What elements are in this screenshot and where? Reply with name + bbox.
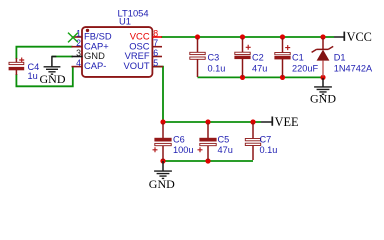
svg-text:4: 4 [76,58,81,68]
ground GND1 (near U1 pin3) [40,57,66,86]
capacitor C5 (47u polarized) [198,123,233,160]
capacitor C6 (100u polarized) [153,123,194,160]
capacitor C7 (0.1u) [245,123,277,160]
pin 2 number [76,38,81,48]
svg-text:VCC: VCC [347,30,372,44]
capacitor C3 (0.1u) [190,38,226,77]
U1 pin 2 CAP+ stub [72,46,83,48]
pin 6 name VREF [125,50,150,61]
pin 8 name VCC [130,31,150,42]
U1 pin 4 CAP- stub [72,66,83,68]
svg-text:C7: C7 [260,135,272,145]
svg-text:C5: C5 [218,135,230,145]
svg-text:7: 7 [153,38,158,48]
U1 pin 7 OSC stub [152,46,162,48]
diode D1 zener 1N4742A [312,38,373,76]
IC U1 LT1054 body [82,27,152,77]
svg-text:1u: 1u [28,71,38,81]
wire VCC rail (pin8 to VCC port) [161,36,334,38]
U1 pin 8 VCC stub (red) [152,36,162,38]
svg-text:8: 8 [153,28,158,38]
node: C2 bottom junction [240,75,245,80]
U1 designator [119,15,131,26]
node: C1 top junction [280,34,285,39]
power port VEE [261,115,299,129]
pin 6 number [153,48,158,58]
pin 8 number [153,28,158,38]
node: C5 bottom junction [205,158,210,163]
svg-text:47u: 47u [218,145,233,155]
svg-text:GND: GND [310,91,336,105]
svg-text:0.1u: 0.1u [208,63,226,73]
capacitor C4 (1u polarized) [9,58,39,81]
no-connect X on pin 1 [68,33,78,43]
svg-text:1: 1 [76,28,81,38]
svg-text:0.1u: 0.1u [260,145,278,155]
wire VEE rail [163,121,261,123]
svg-text:D1: D1 [334,53,346,63]
node: C6 bottom junction [160,158,165,163]
node: C1 bottom junction [280,75,285,80]
pin 5 number [153,58,158,68]
node: C2 top junction [240,34,245,39]
svg-text:2: 2 [76,38,81,48]
pin 7 number [153,38,158,48]
U1 pin 1 FB/SD stub [72,36,83,38]
svg-text:CAP-: CAP- [84,60,106,71]
node: C6 top junction [160,119,165,124]
node: C5 top junction [205,119,210,124]
svg-text:47u: 47u [252,63,267,73]
pin 3 name GND [84,50,105,61]
ground GND2 (below C6) [149,161,175,191]
svg-text:6: 6 [153,48,158,58]
U1 pin 5 VOUT stub [152,66,163,68]
svg-text:3: 3 [76,48,81,58]
U1 pin 6 VREF stub [152,56,162,58]
svg-text:U1: U1 [119,15,131,26]
pin 7 name OSC [129,40,150,51]
svg-text:100u: 100u [173,145,193,155]
ground GND3 (below D1) [310,78,336,105]
pin 1 name FB/SD [84,31,112,42]
svg-text:C1: C1 [292,53,304,63]
svg-text:C3: C3 [208,53,220,63]
wire top bank bottom rail [198,76,324,78]
svg-text:VOUT: VOUT [124,60,150,71]
pin 5 name VOUT [124,60,150,71]
svg-text:VEE: VEE [275,115,299,129]
capacitor C2 (47u polarized) [235,38,268,77]
U1 pin 3 GND stub [72,56,83,58]
capacitor C1 (220uF polarized) [275,38,319,77]
pin 4 name CAP- [84,60,106,71]
svg-text:220uF: 220uF [292,63,318,73]
power port VCC [334,30,372,44]
wire C4 bottom to pin4 [16,67,72,87]
svg-text:GND: GND [149,177,175,191]
pin 2 name CAP+ [84,40,109,51]
svg-text:C2: C2 [252,53,264,63]
pin 3 number [76,48,81,58]
svg-text:1N4742A: 1N4742A [334,63,373,73]
pin 1 number [76,28,81,38]
node: C3 top junction [195,34,200,39]
svg-text:5: 5 [153,58,158,68]
wire pin5 VOUT down to VEE rail [152,67,163,122]
svg-text:GND: GND [40,72,66,86]
pin 4 number [76,58,81,68]
wire bottom bank bottom rail [163,160,253,162]
node: D1 top junction [320,34,325,39]
wire pin2 to C4 top [16,47,72,59]
node: D1 anode junction [320,75,325,80]
wire GND1 to pin3 [52,56,73,58]
node: C7 top junction [250,119,255,124]
U1 part number LT1054 [118,8,149,19]
svg-text:C6: C6 [173,135,185,145]
